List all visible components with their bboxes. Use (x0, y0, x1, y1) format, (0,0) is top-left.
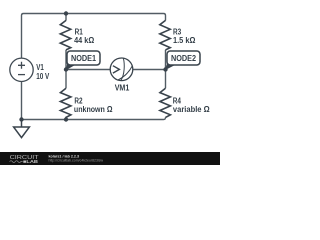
svg-text:1.5 kΩ: 1.5 kΩ (173, 35, 195, 45)
wire V1 bottom to ground rail (21, 81, 23, 119)
wire R3 bottom lead (165, 50, 167, 70)
wire top rail (22, 14, 166, 59)
svg-text:unknown Ω: unknown Ω (74, 104, 113, 114)
svg-text:■LAB: ■LAB (23, 159, 39, 164)
junction node A (NODE1) (64, 67, 68, 71)
svg-text:NODE1: NODE1 (71, 53, 96, 63)
wire R2 top lead (65, 70, 67, 89)
wire node1 to voltmeter (66, 69, 110, 71)
voltage source V1 (10, 58, 33, 81)
junction dot ground tee (19, 117, 23, 121)
footer bar (0, 152, 220, 165)
svg-text:44 kΩ: 44 kΩ (74, 35, 94, 45)
junction dot top R1 (64, 11, 68, 15)
node NODE2 flag (165, 51, 200, 70)
resistor R1 (60, 20, 70, 50)
wire bottom rail (22, 117, 166, 119)
resistor R2 (60, 88, 71, 119)
voltmeter VM1 (110, 58, 133, 81)
svg-text:10 V: 10 V (36, 71, 49, 81)
wire voltmeter to node2 (133, 69, 166, 71)
footer circuitlab logo (10, 155, 40, 164)
wire R4 top lead (165, 70, 167, 89)
ground (14, 120, 30, 138)
wire R1 top lead (65, 14, 67, 21)
resistor R4 (160, 88, 171, 117)
wire R1 bottom lead / node1 column (65, 50, 67, 70)
resistor R3 (160, 20, 170, 50)
junction node B (NODE2) (163, 67, 167, 71)
svg-text:VM1: VM1 (115, 83, 130, 93)
node NODE1 flag (66, 51, 100, 70)
svg-text:NODE2: NODE2 (171, 53, 196, 63)
junction dot bottom R2 (64, 117, 68, 121)
svg-text:variable Ω: variable Ω (173, 104, 210, 114)
svg-text:http://circuitlab.com/c4k2eur8: http://circuitlab.com/c4k2eur823lsw (49, 158, 104, 162)
